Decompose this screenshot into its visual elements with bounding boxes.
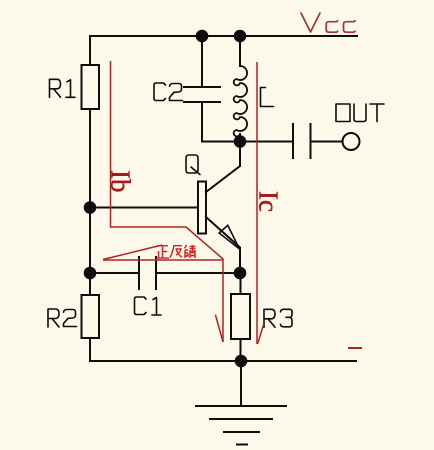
svg-text:Ic: Ic: [254, 191, 284, 212]
svg-text:Ib: Ib: [106, 170, 136, 193]
